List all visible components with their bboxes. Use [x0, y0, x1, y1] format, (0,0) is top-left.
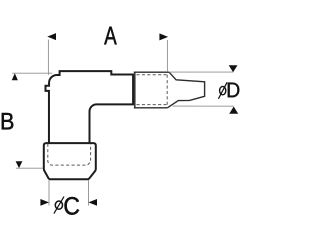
hidden plug insulator in skirt (dashed) [48, 144, 91, 165]
dimension A right arrow [159, 33, 168, 40]
dimension B top arrow [12, 73, 18, 80]
collar top edge [134, 71, 169, 73]
dimension B bottom arrow [16, 161, 23, 168]
terminal nozzle outline [167, 72, 204, 108]
collar bottom edge [134, 107, 168, 109]
diameter symbol of C [55, 201, 62, 209]
dimension A left arrow [47, 33, 56, 40]
hidden cable terminal in collar (dashed) [137, 75, 168, 105]
dimension D top arrow [229, 65, 238, 72]
dimension B bottom extension line [16, 167, 43, 169]
diameter symbol of D [220, 86, 226, 94]
spark plug resistor cap dimension diagram [0, 0, 247, 247]
dimension A label [104, 27, 117, 45]
cap boot skirt [44, 143, 96, 179]
dimension D bottom arrow [229, 107, 238, 114]
dimension B label [2, 113, 13, 129]
cap elbow body outline [46, 71, 134, 143]
dimension C left extension line [48, 180, 50, 206]
dimension D top extension line [169, 71, 233, 73]
dimension C right extension line [87, 180, 89, 206]
dimension C left arrow [40, 199, 49, 206]
dimension A left extension line [47, 40, 49, 75]
dimension A right extension line [166, 40, 168, 72]
dimension D bottom extension line [173, 105, 234, 107]
dimension C right arrow [88, 199, 97, 206]
dimension B top extension line [12, 72, 52, 74]
dimension C label [65, 197, 80, 215]
dimension D label [228, 83, 240, 98]
collar left edge at junction [134, 72, 136, 108]
